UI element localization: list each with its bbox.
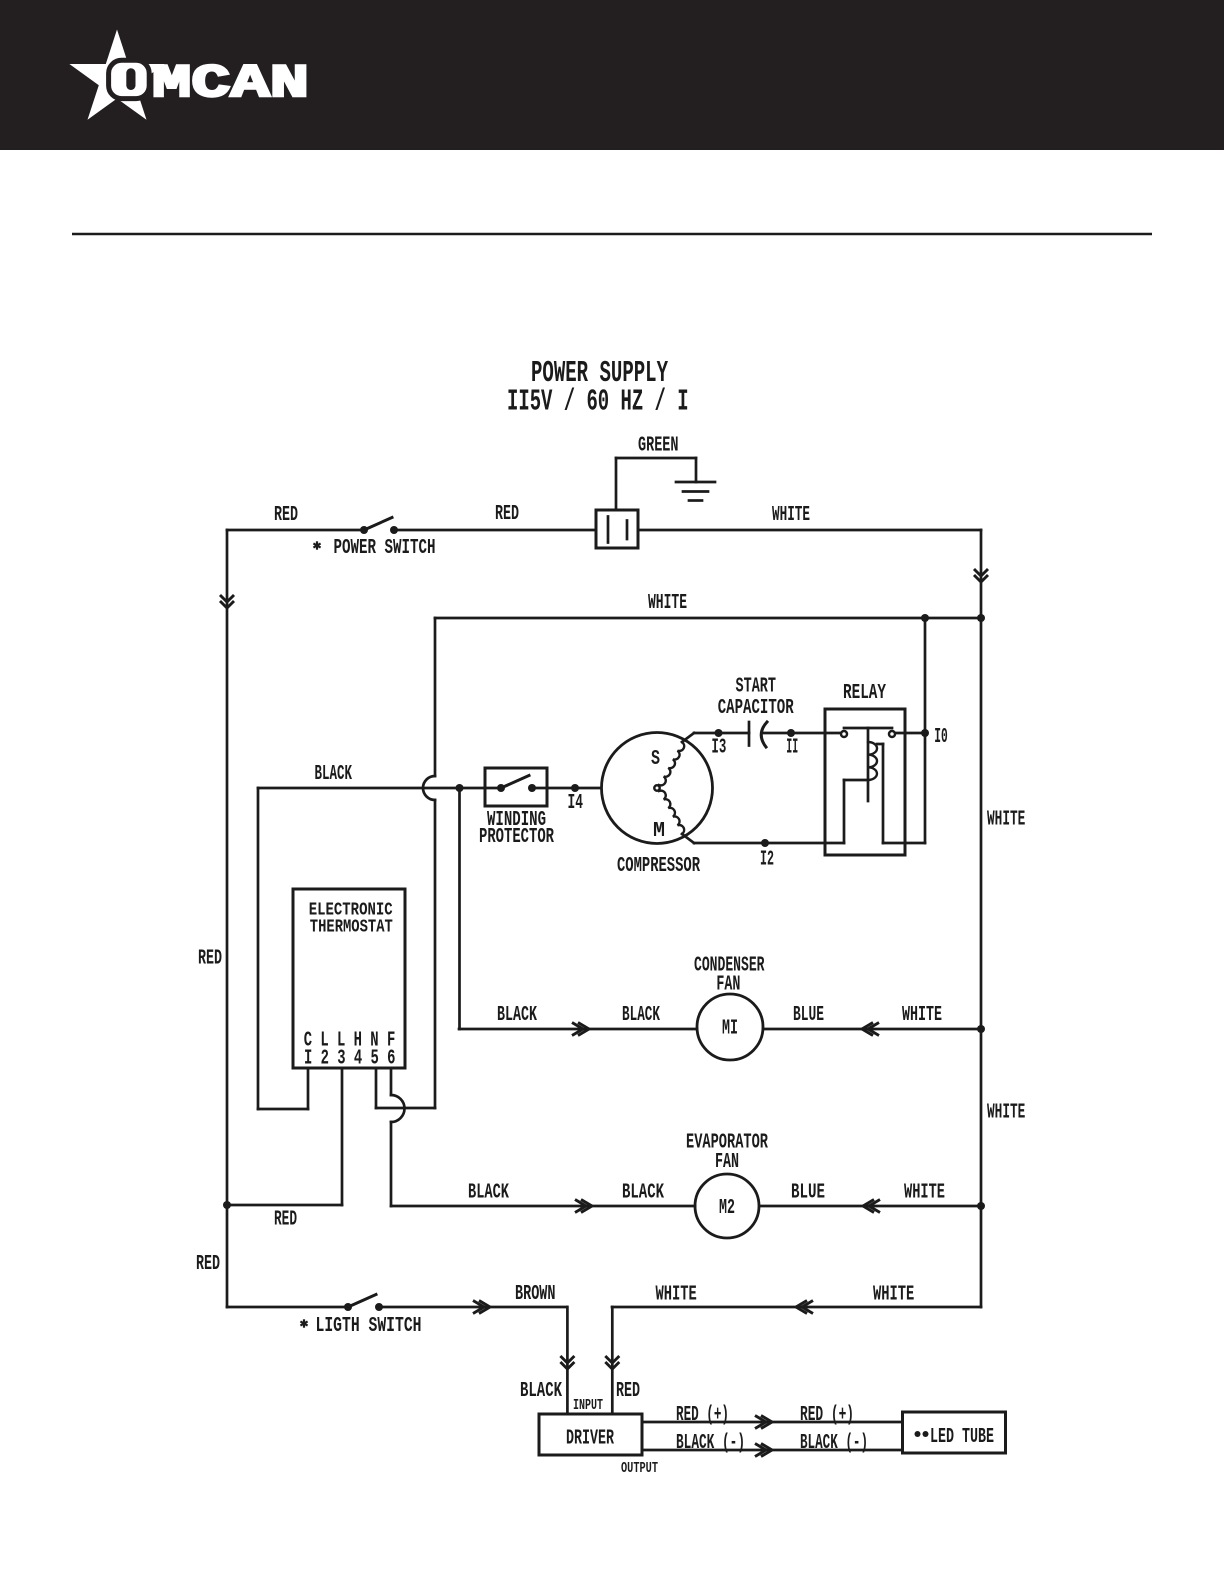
svg-text:MI: MI [722,1018,738,1041]
svg-text:LIGTH SWITCH: LIGTH SWITCH [316,1315,422,1338]
svg-text:BLACK: BLACK [520,1380,562,1403]
svg-text:DRIVER: DRIVER [566,1428,614,1451]
svg-text:LED TUBE: LED TUBE [930,1426,994,1449]
svg-text:RED: RED [495,503,519,526]
svg-text:I 2 3 4 5 6: I 2 3 4 5 6 [304,1048,396,1071]
svg-text:RED: RED [196,1253,220,1276]
svg-text:RELAY: RELAY [843,682,886,705]
svg-text:BLACK: BLACK [622,1182,664,1205]
svg-text:THERMOSTAT: THERMOSTAT [310,917,393,938]
svg-text:S: S [651,748,660,771]
svg-text:BLACK: BLACK [468,1182,509,1205]
svg-text:MCAN: MCAN [152,58,309,110]
svg-text:WHITE: WHITE [648,592,687,615]
svg-text:BLACK: BLACK [622,1004,660,1027]
svg-text:BLACK (-): BLACK (-) [800,1432,868,1455]
svg-text:RED: RED [198,948,222,971]
svg-text:INPUT: INPUT [573,1397,603,1414]
svg-text:BLACK: BLACK [497,1004,537,1027]
svg-text:FAN: FAN [716,974,740,997]
svg-text:CAPACITOR: CAPACITOR [718,697,794,720]
svg-text:II5V / 60 HZ / I: II5V / 60 HZ / I [507,386,689,420]
svg-text:OUTPUT: OUTPUT [621,1460,658,1477]
svg-text:BLUE: BLUE [793,1004,824,1027]
svg-text:RED: RED [616,1380,640,1403]
svg-text:I3: I3 [711,737,726,760]
svg-text:WHITE: WHITE [902,1004,942,1027]
svg-text:WHITE: WHITE [904,1182,945,1205]
svg-text:II: II [786,737,798,760]
svg-text:WHITE: WHITE [656,1284,697,1307]
svg-text:COMPRESSOR: COMPRESSOR [617,855,700,878]
svg-text:BROWN: BROWN [515,1283,556,1306]
svg-text:I0: I0 [934,726,948,749]
svg-text:WHITE: WHITE [873,1284,914,1307]
svg-text:PROTECTOR: PROTECTOR [479,826,554,849]
svg-text:BLACK: BLACK [315,763,353,786]
svg-text:GREEN: GREEN [638,435,679,458]
svg-text:I2: I2 [760,849,774,872]
svg-text:I4: I4 [568,792,584,815]
svg-text:RED (+): RED (+) [676,1404,729,1427]
svg-text:RED: RED [274,1209,297,1232]
svg-text:BLUE: BLUE [791,1182,825,1205]
svg-text:WHITE: WHITE [987,809,1025,832]
svg-text:START: START [736,676,777,699]
svg-text:BLACK (-): BLACK (-) [676,1432,745,1455]
svg-text:M: M [653,820,665,843]
svg-text:POWER SWITCH: POWER SWITCH [334,537,436,560]
svg-text:FAN: FAN [715,1151,739,1174]
svg-text:M2: M2 [719,1197,735,1220]
svg-text:WHITE: WHITE [987,1102,1025,1125]
svg-text:RED (+): RED (+) [800,1404,854,1427]
svg-text:RED: RED [274,504,298,527]
svg-text:WHITE: WHITE [772,504,810,527]
